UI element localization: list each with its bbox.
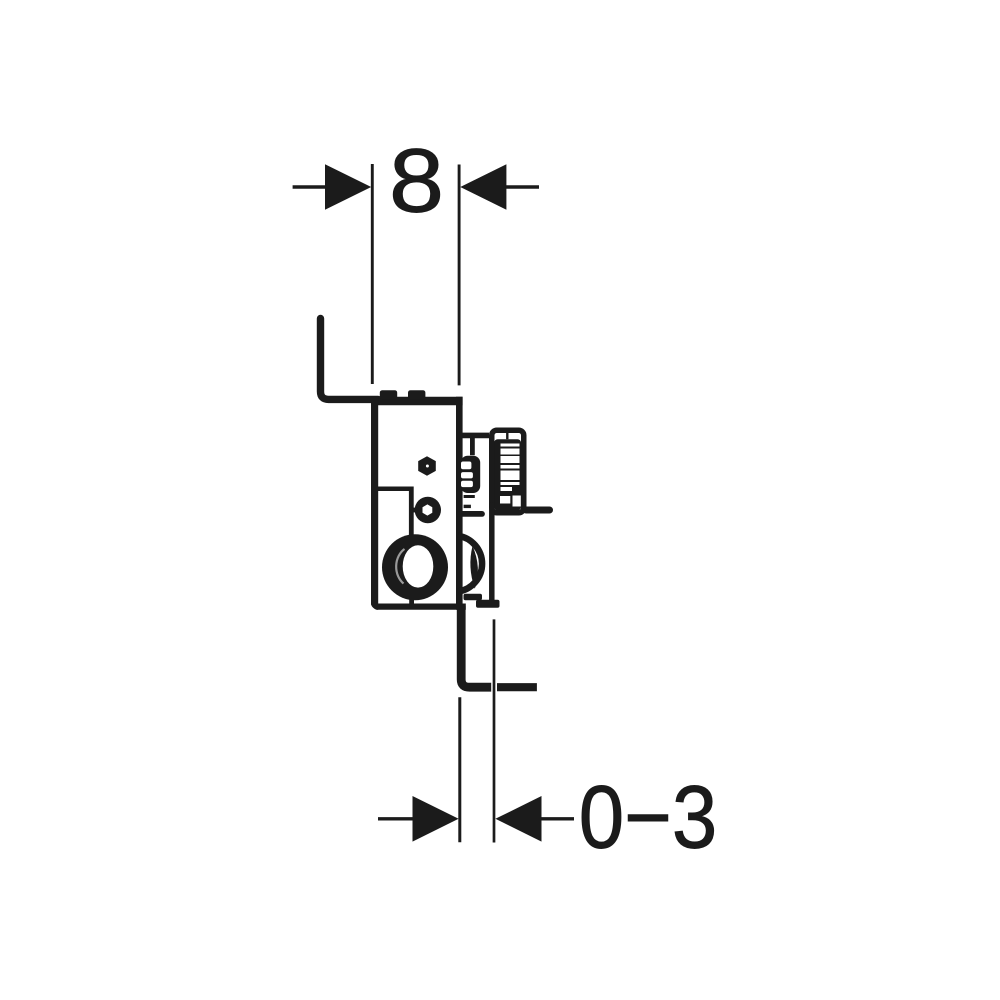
dimension 0-3 extension line right xyxy=(493,619,496,842)
frame right edge xyxy=(456,397,463,610)
right connector bar top xyxy=(459,433,489,439)
bushing ring with hex hole xyxy=(411,497,441,523)
frame tab 1 xyxy=(380,390,397,399)
lower side bar xyxy=(459,511,482,517)
side torus inner crescent xyxy=(470,546,478,589)
water inlet donut xyxy=(382,534,448,600)
housing top divider xyxy=(506,430,508,439)
svg-text:8: 8 xyxy=(389,132,444,232)
frame top bar xyxy=(371,397,463,405)
frame bottom bar xyxy=(371,603,466,609)
frame left edge xyxy=(371,397,378,610)
inner step vertical xyxy=(409,487,414,537)
lower L bracket xyxy=(461,606,491,687)
inner step horizontal xyxy=(377,486,413,491)
donut bottom stub xyxy=(409,596,414,606)
svg-text:0−3: 0−3 xyxy=(579,767,718,867)
gear block xyxy=(494,439,521,510)
clamp hook stub xyxy=(470,437,475,455)
gear housing xyxy=(492,430,524,513)
torus foot step xyxy=(464,594,500,608)
dimension 8 arrow left xyxy=(293,164,372,210)
clamp tick 2 xyxy=(464,505,471,508)
dimension 8 arrow right xyxy=(460,164,539,210)
lower L bracket right segment xyxy=(497,683,537,691)
frame tab 2 xyxy=(408,390,425,399)
body bottom-left outer corner rounding xyxy=(370,601,380,611)
hex bolt xyxy=(418,456,436,476)
clamp tick 1 xyxy=(464,495,475,498)
side torus arc xyxy=(458,536,482,592)
dimension 0-3 extension line left xyxy=(458,697,461,842)
dimension 8 extension line right xyxy=(458,165,461,386)
dimension 8 extension line left xyxy=(371,164,374,384)
wall bracket top L xyxy=(321,319,379,400)
dimension 0-3 arrow left xyxy=(378,796,459,842)
dimension 0-3 arrow right xyxy=(495,796,574,842)
housing right foot bar xyxy=(526,507,550,514)
clamp block xyxy=(461,456,481,493)
housing left leg xyxy=(489,505,495,602)
